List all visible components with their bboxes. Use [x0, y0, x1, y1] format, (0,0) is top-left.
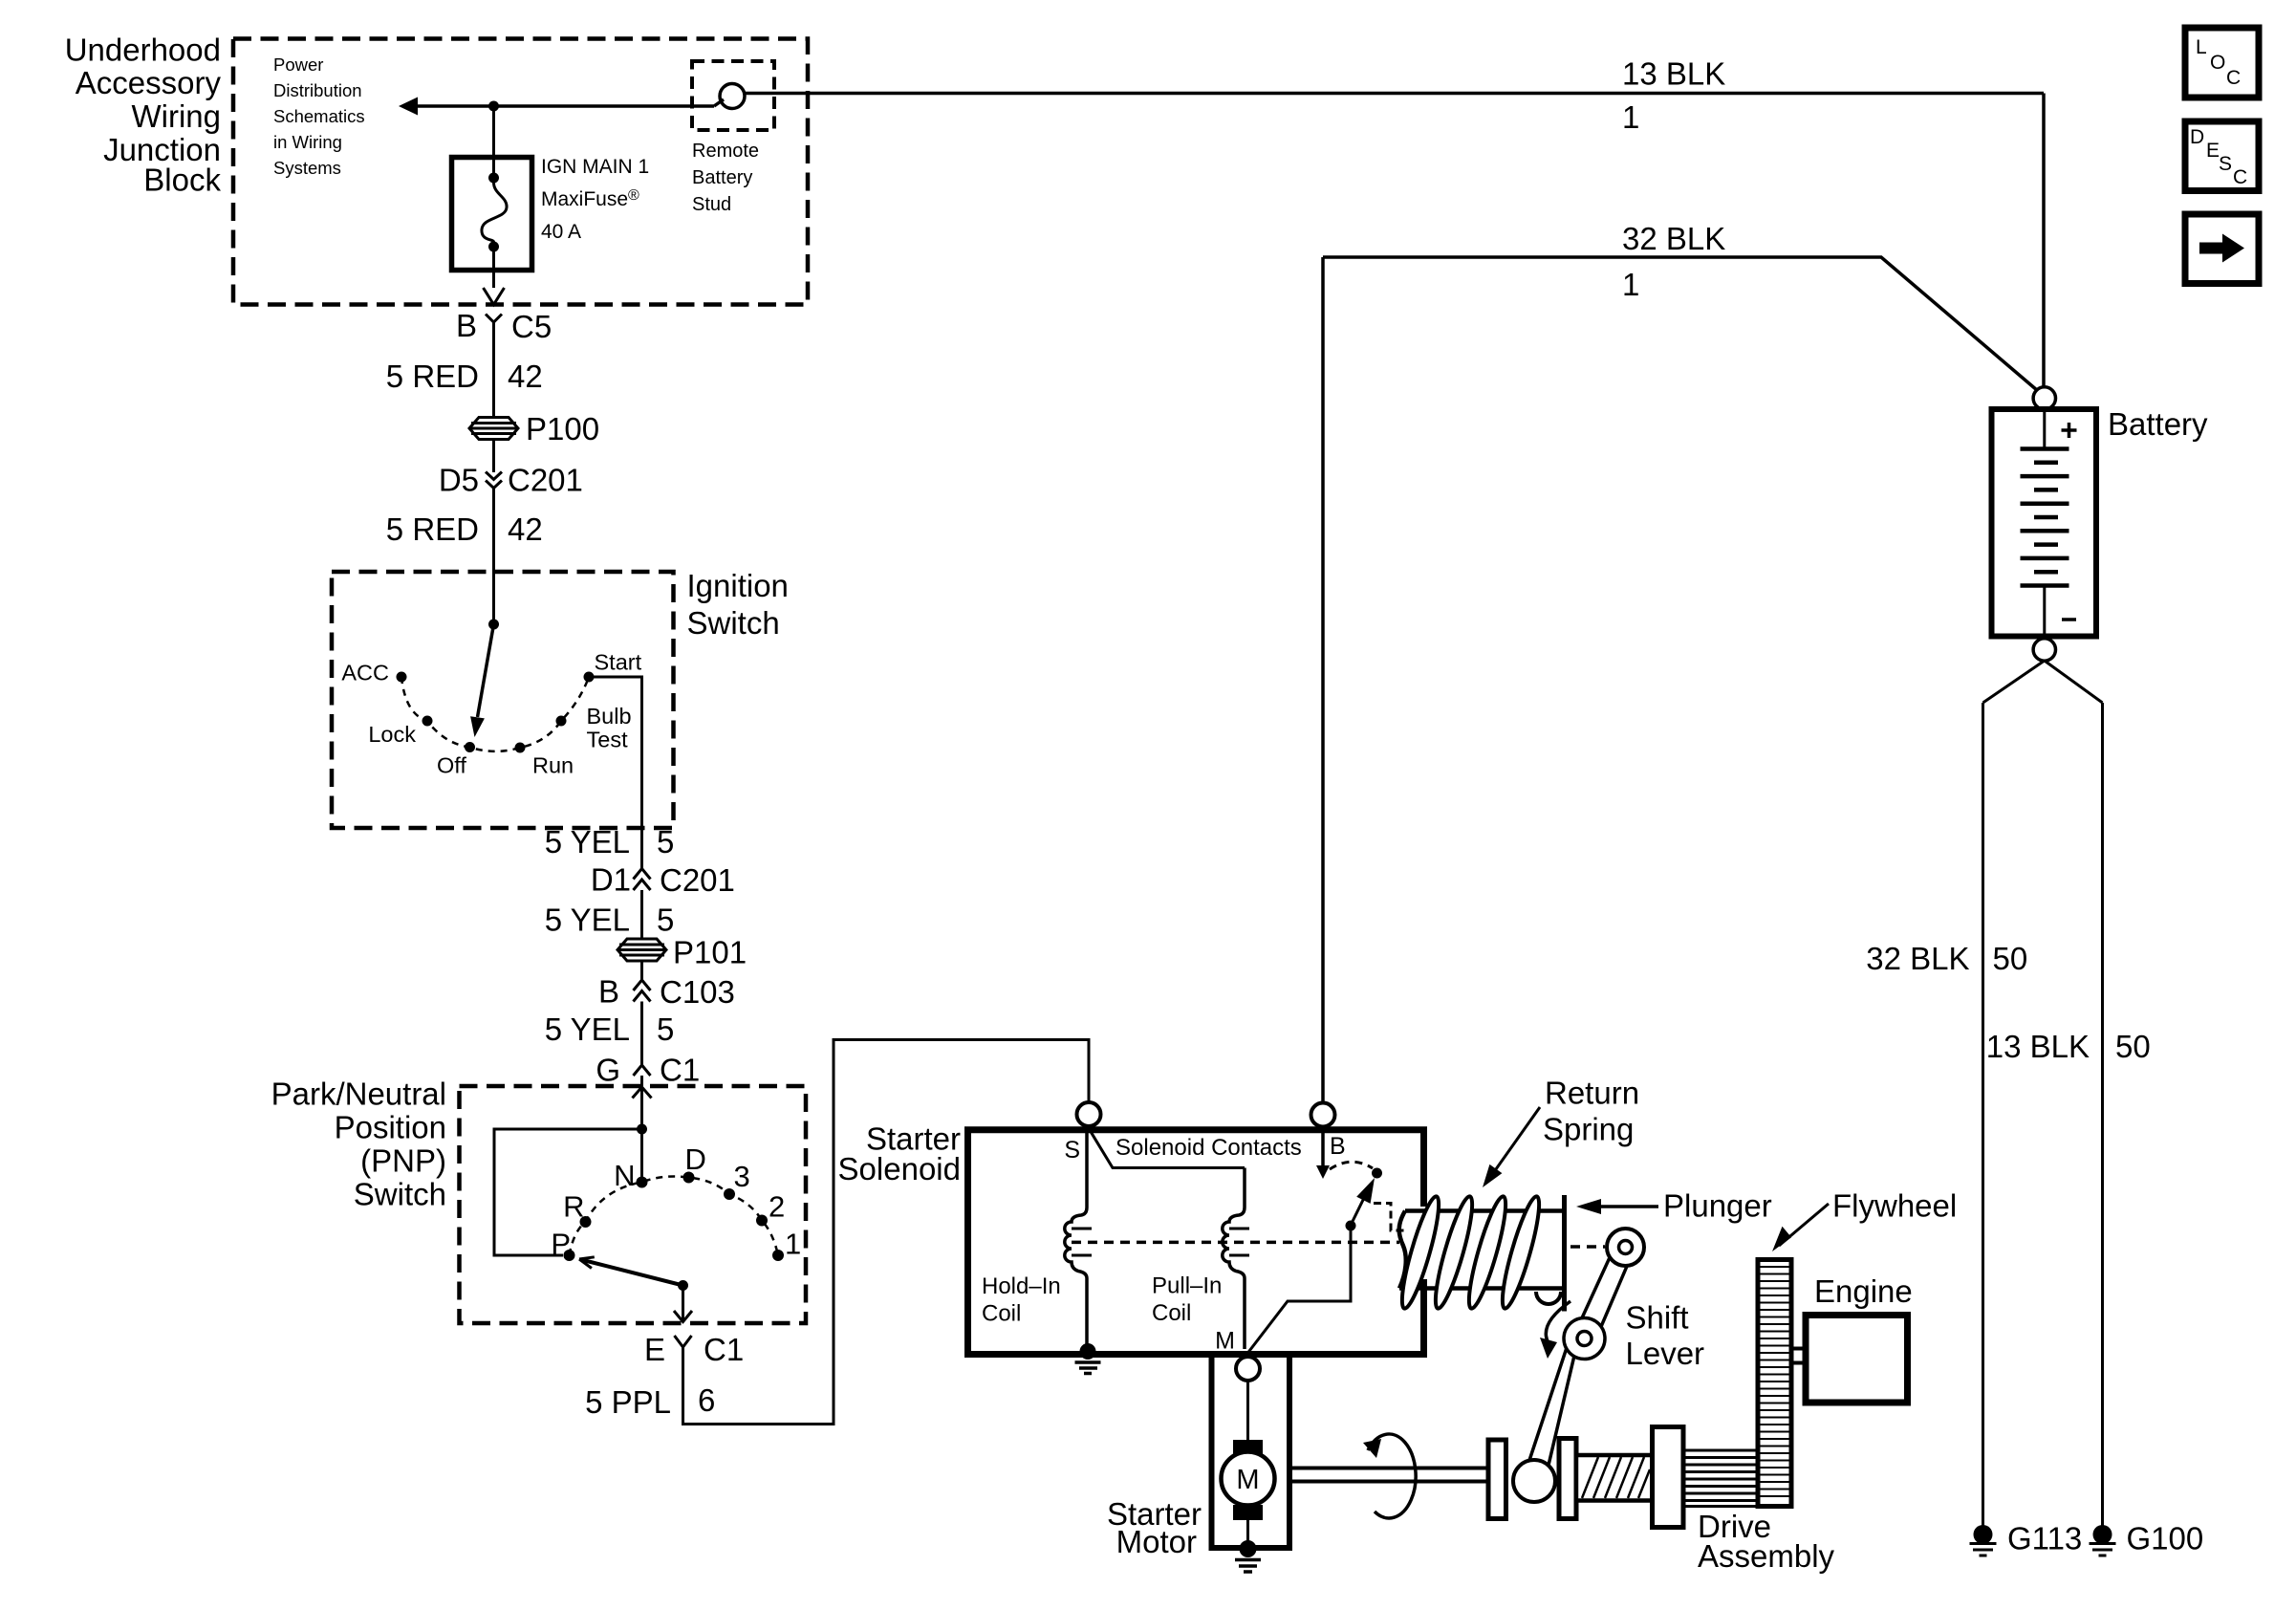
PNP contact 2	[756, 1215, 768, 1227]
shift lever lower arm	[1527, 1335, 1578, 1475]
PNP contact R	[580, 1216, 592, 1228]
ignition contact Bulb Test	[556, 716, 567, 727]
connector C201 double chevron up (D1)	[634, 869, 651, 891]
fuse element wire and dots	[488, 173, 499, 184]
wire 32 BLK horizontal and diagonal to battery	[1323, 257, 2038, 391]
ignition contact Off	[465, 742, 475, 752]
svg-text:Switch: Switch	[687, 605, 780, 641]
svg-text:Battery: Battery	[2108, 406, 2208, 442]
svg-text:C5: C5	[511, 309, 552, 344]
next-page arrow symbol	[2199, 243, 2224, 254]
PNP internal wire loop to P contact	[494, 1129, 642, 1255]
splice P101 symbol	[617, 939, 666, 961]
wire 5 RED segment 1	[492, 322, 495, 418]
motor brush lower	[1233, 1505, 1263, 1520]
shift lever upper arm	[1574, 1243, 1634, 1342]
svg-text:Bulb: Bulb	[587, 704, 632, 729]
svg-text:Switch: Switch	[354, 1177, 446, 1212]
wire 5 PPL down and around to solenoid S	[683, 1040, 1090, 1425]
node: junction dot on 13 BLK feed	[488, 101, 499, 112]
svg-text:5: 5	[657, 903, 674, 938]
connector C5 exit arrow at junction block boundary	[484, 288, 505, 305]
svg-text:3: 3	[734, 1160, 750, 1193]
svg-text:Block: Block	[143, 163, 221, 198]
svg-text:Ignition: Ignition	[687, 568, 789, 603]
svg-text:Lock: Lock	[368, 722, 416, 747]
svg-text:Return: Return	[1545, 1076, 1639, 1111]
svg-text:6: 6	[698, 1382, 715, 1418]
motor armature circle M	[1222, 1452, 1275, 1506]
svg-text:L: L	[2196, 36, 2207, 58]
svg-text:1: 1	[1622, 99, 1639, 135]
remote battery stud circle	[720, 84, 745, 109]
flywheel to engine shaft stubs	[1791, 1349, 1806, 1363]
svg-text:Coil: Coil	[982, 1301, 1021, 1327]
svg-text:S: S	[2219, 153, 2232, 175]
shift lever top eye	[1607, 1229, 1644, 1266]
dashed linkage from contact to plunger	[1374, 1204, 1404, 1231]
svg-text:Battery: Battery	[692, 167, 752, 188]
remote battery stud dashed box	[692, 61, 774, 130]
PNP junction dot	[637, 1124, 647, 1135]
svg-text:5 YEL: 5 YEL	[545, 824, 630, 859]
wire from pivot to M terminal	[1248, 1226, 1352, 1353]
ignition contact Start	[584, 672, 595, 683]
ground wire left (to G113)	[1982, 703, 1984, 1526]
hold-in coil	[1065, 1126, 1087, 1351]
svg-text:Wiring: Wiring	[131, 98, 221, 134]
ignition contact Lock	[422, 716, 433, 727]
svg-text:Power: Power	[273, 54, 323, 75]
svg-text:C: C	[2226, 67, 2241, 89]
svg-text:1: 1	[1622, 267, 1639, 302]
svg-text:G: G	[596, 1053, 620, 1088]
svg-text:Assembly: Assembly	[1698, 1538, 1835, 1574]
svg-text:Distribution: Distribution	[273, 80, 362, 100]
svg-text:Position: Position	[335, 1110, 446, 1145]
svg-text:50: 50	[1993, 941, 2028, 976]
starter motor box	[1212, 1353, 1290, 1548]
wire M terminal to motor brush	[1246, 1381, 1249, 1441]
PNP exit arrow at box boundary	[674, 1311, 692, 1322]
ignition switch wiper arm	[478, 624, 494, 717]
svg-text:Remote: Remote	[692, 141, 759, 162]
wire from Start contact	[589, 677, 642, 868]
svg-text:Underhood: Underhood	[65, 33, 221, 68]
DESC reference box	[2185, 121, 2259, 191]
next-page arrow box	[2185, 214, 2259, 284]
rotation arrow around shaft	[1368, 1434, 1416, 1518]
svg-text:5 RED: 5 RED	[386, 359, 479, 394]
engine box	[1806, 1316, 1908, 1403]
splice P100 symbol	[469, 418, 518, 440]
svg-text:Pull–In: Pull–In	[1152, 1273, 1222, 1299]
svg-text:D: D	[2190, 126, 2204, 148]
svg-text:ACC: ACC	[341, 661, 389, 685]
fuse IGN MAIN 1 MaxiFuse 40A box	[452, 158, 532, 271]
PNP wiper pivot dot	[678, 1280, 688, 1291]
svg-text:(PNP): (PNP)	[360, 1143, 446, 1179]
svg-text:5 PPL: 5 PPL	[585, 1384, 671, 1420]
PNP wire junction to N contact	[640, 1129, 643, 1177]
svg-text:R: R	[563, 1190, 584, 1224]
wire from S to pull-in coil	[1090, 1130, 1245, 1168]
B fixed contact with arrowhead	[1321, 1126, 1325, 1167]
svg-text:Stud: Stud	[692, 194, 731, 215]
moving contact pivot dot	[1346, 1221, 1356, 1231]
svg-text:13 BLK: 13 BLK	[1986, 1029, 2090, 1064]
PNP box entry arrow	[633, 1087, 652, 1099]
svg-text:Flywheel: Flywheel	[1832, 1188, 1957, 1224]
svg-text:Motor: Motor	[1116, 1524, 1197, 1559]
drive assembly hatched shaft	[1576, 1455, 1653, 1501]
plunger leader arrow	[1589, 1205, 1658, 1208]
svg-text:P100: P100	[526, 411, 599, 446]
plunger end cap	[1562, 1195, 1567, 1312]
svg-text:42: 42	[508, 511, 543, 547]
svg-text:Off: Off	[437, 753, 466, 778]
svg-text:50: 50	[2115, 1029, 2151, 1064]
svg-text:Accessory: Accessory	[76, 65, 222, 100]
PNP contact P	[564, 1250, 575, 1261]
svg-text:Schematics: Schematics	[273, 106, 365, 126]
motor ground	[1246, 1520, 1249, 1546]
svg-text:E: E	[2206, 140, 2220, 162]
svg-text:C201: C201	[508, 463, 583, 498]
park/neutral position switch dashed box	[460, 1086, 807, 1323]
battery negative terminal	[2033, 639, 2055, 661]
battery positive terminal	[2033, 387, 2055, 409]
wire 13 BLK main horizontal run	[416, 94, 2044, 387]
solenoid ground (hold-in coil)	[1080, 1343, 1096, 1360]
PNP contact 3	[724, 1188, 735, 1200]
drive flange 2	[1559, 1439, 1576, 1519]
svg-text:2: 2	[769, 1190, 785, 1224]
svg-text:C201: C201	[660, 862, 735, 898]
svg-text:C1: C1	[660, 1053, 700, 1088]
ground G113 symbol	[1974, 1525, 1993, 1544]
svg-text:D: D	[685, 1142, 706, 1176]
PNP dashed contact arc	[570, 1176, 779, 1255]
svg-text:32 BLK: 32 BLK	[1866, 941, 1969, 976]
svg-text:13 BLK: 13 BLK	[1622, 56, 1725, 92]
PNP wiper arm with arrowhead at P	[583, 1260, 683, 1286]
battery plus sign	[2062, 423, 2077, 438]
wire 5 YEL segment 3	[640, 1002, 643, 1066]
starter solenoid box	[968, 1130, 1424, 1355]
svg-text:M: M	[1236, 1465, 1259, 1495]
svg-text:Solenoid: Solenoid	[838, 1151, 961, 1186]
lever motion curved arrow	[1546, 1301, 1570, 1343]
svg-text:Shift: Shift	[1626, 1300, 1689, 1336]
svg-text:40 A: 40 A	[541, 221, 581, 243]
battery negative split wires	[1983, 661, 2103, 703]
svg-text:Hold–In: Hold–In	[982, 1273, 1061, 1299]
ground wire right (to G100)	[2101, 703, 2104, 1526]
svg-text:D1: D1	[591, 862, 631, 898]
LOC reference box	[2185, 28, 2259, 98]
motor brush upper	[1233, 1440, 1263, 1455]
svg-text:Start: Start	[595, 650, 642, 675]
svg-text:C103: C103	[660, 974, 735, 1010]
svg-text:Test: Test	[587, 728, 629, 752]
PNP contact N	[637, 1177, 648, 1188]
splined shaft section	[1683, 1450, 1758, 1507]
svg-text:P: P	[551, 1228, 571, 1261]
svg-text:S: S	[1064, 1137, 1080, 1164]
solenoid S terminal	[1077, 1102, 1101, 1126]
return spring coils	[1396, 1194, 1561, 1312]
PNP contact D	[683, 1172, 695, 1184]
solenoid fixed contact dot	[1372, 1168, 1382, 1179]
svg-text:G113: G113	[2007, 1521, 2082, 1556]
ignition switch wiper pivot dot	[488, 620, 499, 630]
wire 32 BLK vertical down to B terminal	[1321, 257, 1325, 1103]
svg-text:42: 42	[508, 359, 543, 394]
wire from junction down to fuse	[492, 106, 495, 159]
motor output shaft	[1289, 1469, 1491, 1482]
pull-in coil	[1223, 1168, 1245, 1350]
svg-text:5 RED: 5 RED	[386, 511, 479, 547]
svg-text:Run: Run	[532, 753, 574, 778]
mechanical linkage dashed centerline	[1072, 1241, 1399, 1245]
svg-text:Lever: Lever	[1626, 1336, 1705, 1371]
wire below P101	[640, 961, 643, 980]
svg-text:IGN MAIN 1: IGN MAIN 1	[541, 156, 649, 178]
battery cell plates	[2043, 412, 2046, 639]
svg-text:E: E	[644, 1332, 665, 1367]
PNP contact 1	[772, 1250, 784, 1261]
svg-text:C1: C1	[704, 1332, 744, 1367]
svg-text:B: B	[456, 308, 477, 343]
svg-text:32 BLK: 32 BLK	[1622, 221, 1725, 256]
ignition switch dashed contact arc	[401, 677, 589, 751]
ground G100 symbol	[2093, 1525, 2112, 1544]
underhood junction block dashed box	[233, 39, 808, 305]
svg-text:MaxiFuse®: MaxiFuse®	[541, 187, 639, 210]
svg-text:Coil: Coil	[1152, 1300, 1191, 1326]
ignition contact ACC	[397, 672, 407, 683]
shift lever ball end	[1513, 1460, 1555, 1502]
svg-text:O: O	[2210, 52, 2225, 74]
svg-text:5: 5	[657, 1012, 674, 1047]
svg-text:1: 1	[785, 1228, 801, 1261]
M terminal circle	[1236, 1357, 1260, 1381]
svg-text:5 YEL: 5 YEL	[545, 1012, 630, 1047]
wire into PNP box	[640, 1076, 643, 1087]
wire to PNP junction	[640, 1087, 643, 1129]
svg-text:in Wiring: in Wiring	[273, 132, 342, 152]
connector C201 double chevron (D5)	[486, 472, 502, 489]
svg-text:M: M	[1215, 1328, 1235, 1355]
svg-text:Systems: Systems	[273, 158, 341, 178]
ignition contact Run	[515, 743, 526, 753]
solenoid moving contact arrow	[1356, 1178, 1375, 1204]
wire 5 YEL segment	[640, 890, 643, 940]
shift lever middle lobe	[1564, 1318, 1605, 1360]
connector C5 female Y symbol	[486, 315, 502, 323]
plunger body	[1399, 1211, 1566, 1289]
connector C1 single chevron up (G)	[634, 1065, 651, 1076]
connector C1 female Y symbol (E)	[675, 1336, 692, 1347]
svg-text:Engine: Engine	[1814, 1273, 1913, 1309]
PNP wiper exit wire	[682, 1286, 684, 1322]
wire 5 RED segment 2 into ignition switch	[492, 489, 495, 625]
svg-text:Solenoid Contacts: Solenoid Contacts	[1116, 1135, 1302, 1161]
svg-text:G100: G100	[2127, 1521, 2204, 1556]
svg-text:P101: P101	[673, 935, 747, 970]
svg-text:N: N	[614, 1159, 635, 1192]
solenoid contacts dashed arc	[1330, 1162, 1373, 1169]
drive flange 1	[1488, 1440, 1506, 1519]
svg-text:B: B	[598, 974, 619, 1010]
ignition switch dashed box	[332, 572, 674, 828]
drive flange 3	[1653, 1427, 1684, 1528]
svg-text:B: B	[1330, 1133, 1346, 1160]
wire below P100	[492, 440, 495, 473]
arrow to Power Distribution Schematics	[399, 98, 418, 116]
svg-text:D5: D5	[439, 463, 479, 498]
svg-text:Park/Neutral: Park/Neutral	[271, 1077, 446, 1112]
return spring leader arrow	[1491, 1107, 1540, 1176]
battery minus sign	[2062, 618, 2076, 621]
svg-text:Spring: Spring	[1543, 1112, 1634, 1147]
flywheel leader arrow	[1779, 1204, 1829, 1246]
svg-text:5 YEL: 5 YEL	[545, 903, 630, 938]
svg-text:C: C	[2233, 166, 2247, 188]
battery box	[1992, 409, 2097, 637]
solenoid B terminal	[1311, 1103, 1335, 1127]
svg-text:Plunger: Plunger	[1663, 1188, 1772, 1224]
svg-text:5: 5	[657, 824, 674, 859]
connector C103 double chevron up (B)	[634, 980, 651, 1002]
flywheel ring gear	[1758, 1260, 1791, 1507]
